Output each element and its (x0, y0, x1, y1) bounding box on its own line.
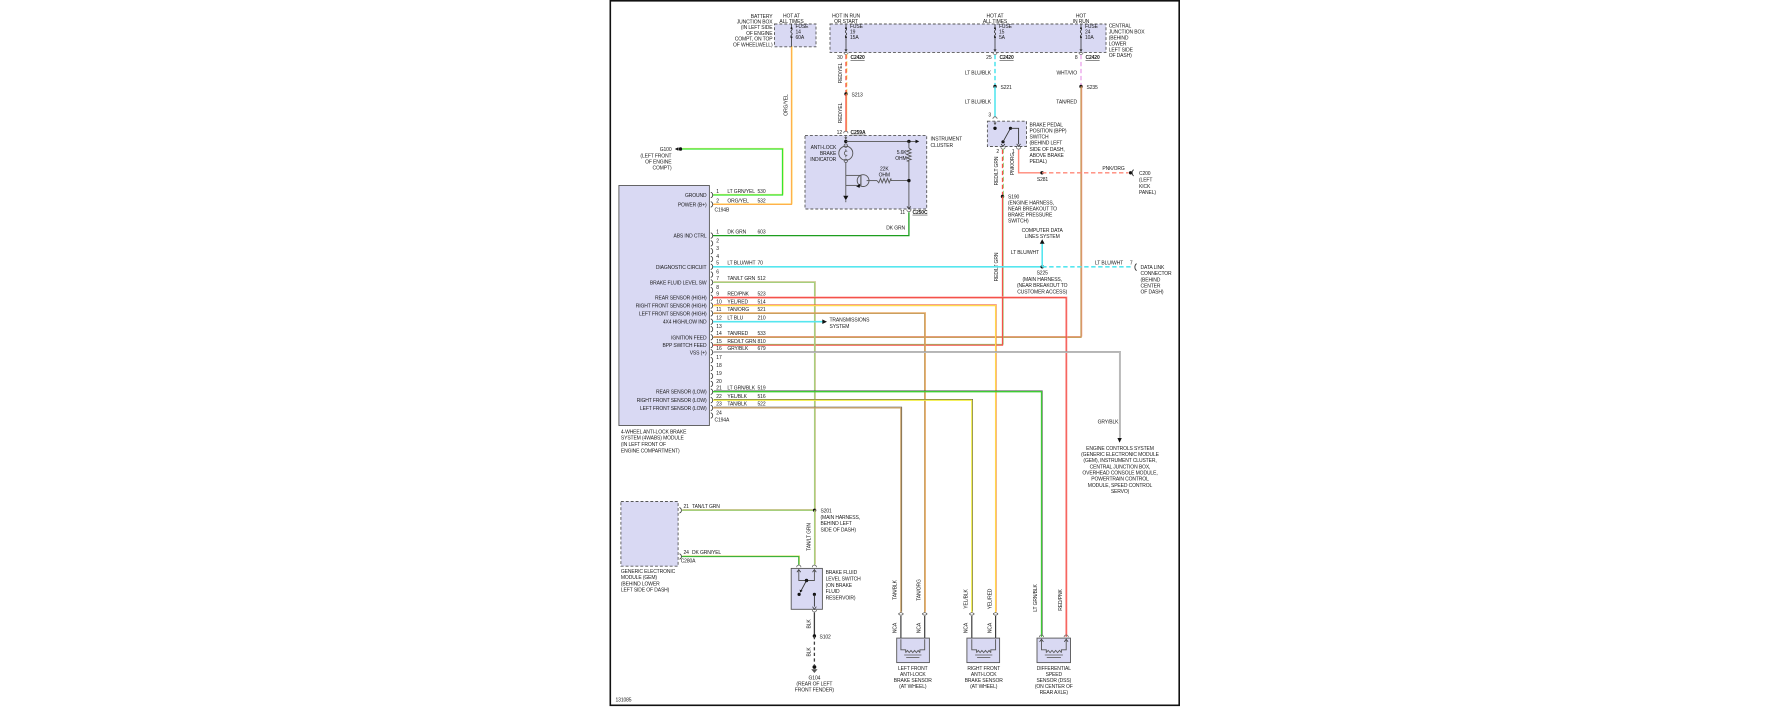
svg-text:TAN/LT GRN: TAN/LT GRN (806, 523, 812, 551)
svg-text:ENGINE CONTROLS SYSTEM: ENGINE CONTROLS SYSTEM (1086, 446, 1154, 452)
wire LT BLU/WHT dashed S225 to DLC (1042, 266, 1133, 268)
left front anti-lock brake sensor (893, 613, 933, 690)
svg-text:IGNITION FEED: IGNITION FEED (671, 335, 707, 341)
svg-text:G104: G104 (809, 676, 821, 682)
module pin 12 LT BLU (663, 316, 766, 326)
svg-text:20: 20 (716, 379, 722, 385)
wire LT GRN/BLK module pin21 to DSS (713, 391, 1042, 637)
svg-text:TAN/RED: TAN/RED (1056, 99, 1077, 105)
splice S281 (1037, 171, 1049, 183)
svg-text:17: 17 (716, 355, 722, 361)
svg-text:(GENERIC ELECTRONIC MODULE: (GENERIC ELECTRONIC MODULE (1081, 452, 1160, 458)
4WABS module box (619, 186, 710, 426)
svg-text:C200: C200 (1139, 171, 1151, 177)
svg-text:TAN/LT GRN: TAN/LT GRN (692, 504, 720, 510)
feed label HOT AT ALL TIMES (battery box) (779, 13, 804, 25)
svg-text:WHT/VIO: WHT/VIO (1056, 70, 1077, 76)
BPP entry connector (993, 117, 997, 119)
BPP switch arm (1001, 127, 1018, 144)
svg-text:LT BLU: LT BLU (727, 316, 743, 322)
wire DK GRN cluster to module pin1 (713, 212, 909, 235)
svg-text:SWITCH): SWITCH) (1008, 219, 1029, 225)
svg-text:SERVO): SERVO) (1111, 489, 1130, 495)
module pin GROUND (685, 189, 766, 199)
svg-text:FRONT FENDER): FRONT FENDER) (795, 688, 835, 694)
wire RED/LT GRN S190 to module pin15 (713, 196, 1003, 346)
module pin 11 TAN/ORG (639, 307, 766, 317)
svg-text:RIGHT FRONT SENSOR (LOW): RIGHT FRONT SENSOR (LOW) (637, 398, 707, 404)
svg-text:(LEFT: (LEFT (1139, 178, 1152, 184)
fuse 14 label (796, 24, 810, 41)
svg-text:CENTER: CENTER (1141, 284, 1161, 290)
module pin 2 (unused) (711, 238, 720, 246)
svg-text:LEFT FRONT SENSOR (LOW): LEFT FRONT SENSOR (LOW) (640, 406, 707, 412)
BPP common node (993, 127, 996, 130)
wire RED/LT GRN dashed BPP pin2 to S190 (1002, 149, 1005, 197)
svg-text:S225: S225 (1037, 271, 1049, 277)
svg-text:1: 1 (716, 229, 719, 235)
svg-text:21: 21 (684, 504, 690, 510)
svg-text:2: 2 (716, 238, 719, 244)
module pin 23 TAN/BLK (640, 402, 766, 412)
transmissions system label (830, 317, 871, 329)
splice S213 (844, 92, 863, 98)
diagram border frame (610, 1, 1179, 706)
module pin 1 DK GRN (673, 229, 765, 239)
instrument cluster box (805, 135, 927, 209)
wire LT BLU module pin12 to transmissions system (713, 319, 827, 324)
svg-text:30: 30 (837, 55, 843, 61)
4WABS module label (621, 429, 687, 454)
feed label HOT AT ALL TIMES (CJB) (983, 13, 1008, 25)
svg-text:TAN/ORG: TAN/ORG (916, 579, 922, 601)
module pin 16 GRY/BLK (690, 346, 766, 356)
feed label HOT IN RUN OR START (832, 13, 860, 25)
svg-text:BRAKE FLUID LEVEL SW: BRAKE FLUID LEVEL SW (650, 280, 707, 286)
splice S235 (1079, 85, 1098, 91)
svg-text:C259A: C259A (851, 130, 866, 136)
switch arm (798, 581, 807, 597)
cluster entry arrow (844, 135, 847, 140)
svg-text:4: 4 (716, 254, 719, 260)
BPP pin2 contact (1001, 144, 1005, 147)
svg-text:530: 530 (758, 189, 766, 195)
svg-text:NCA: NCA (893, 622, 899, 633)
svg-text:15: 15 (716, 339, 722, 345)
cluster node C (907, 179, 910, 182)
svg-text:2: 2 (716, 198, 719, 204)
anti-lock brake indicator label (810, 145, 837, 163)
svg-text:TAN/RED: TAN/RED (727, 331, 748, 337)
svg-text:RESERVOIR): RESERVOIR) (826, 596, 856, 602)
svg-text:G100: G100 (660, 147, 672, 153)
svg-text:BEHIND LEFT: BEHIND LEFT (821, 521, 852, 527)
wire ORG/YEL fuse14 to module pin2 (713, 46, 792, 205)
GEM pin 24 (680, 550, 722, 559)
svg-text:FLUID: FLUID (826, 589, 840, 595)
brake fluid level switch box (791, 568, 822, 609)
module pin 9 RED/PNK (655, 292, 766, 302)
svg-text:DK GRN: DK GRN (727, 229, 746, 235)
switch common node (805, 579, 808, 582)
switch bottom connector (812, 610, 816, 612)
connector 8 C2420 (1075, 52, 1100, 61)
module pin 5 LT BLU/WHT (656, 261, 763, 271)
svg-text:LEVEL SWITCH: LEVEL SWITCH (826, 577, 862, 583)
svg-text:BLK: BLK (806, 619, 812, 629)
svg-text:25: 25 (986, 55, 992, 61)
svg-text:(AT WHEEL): (AT WHEEL) (899, 684, 927, 690)
svg-text:REAR SENSOR (HIGH): REAR SENSOR (HIGH) (655, 296, 707, 302)
wire YEL/BLK module pin22 to RF sensor (713, 399, 973, 612)
brake fluid switch entry connectors (797, 565, 817, 567)
connector 25 C2420 (986, 52, 1014, 61)
fuse 24 10A symbol (1080, 24, 1083, 52)
svg-text:POWER (B+): POWER (B+) (678, 202, 707, 208)
module pin 21 LT GRN/BLK (656, 386, 766, 396)
connector 12 C259A (837, 130, 866, 136)
svg-text:1: 1 (716, 189, 719, 195)
svg-text:3: 3 (716, 246, 719, 252)
wire WHT/VIO dashed fuse24 to S235 (1080, 55, 1082, 87)
splice S221 (993, 85, 1012, 91)
connector 11 C250C (900, 210, 928, 216)
module pin 3 (unused) (711, 246, 720, 254)
svg-text:INSTRUMENT: INSTRUMENT (931, 137, 963, 143)
GEM label (621, 569, 676, 593)
svg-text:RED/PNK: RED/PNK (1058, 589, 1064, 611)
svg-text:(NEAR BREAKOUT TO: (NEAR BREAKOUT TO (1017, 283, 1068, 289)
svg-text:RIGHT FRONT SENSOR (HIGH): RIGHT FRONT SENSOR (HIGH) (636, 304, 707, 310)
svg-text:COMPT): COMPT) (653, 165, 672, 171)
central junction box (830, 24, 1106, 52)
svg-text:C2420: C2420 (1086, 55, 1100, 61)
svg-text:12: 12 (837, 130, 843, 136)
resistor 22K OHM (867, 178, 909, 182)
label 22K OHM (879, 167, 890, 179)
svg-text:S235: S235 (1087, 85, 1099, 91)
data link connector label (1141, 265, 1173, 296)
module pin 4 (unused) (711, 254, 720, 262)
svg-text:RED/LT GRN: RED/LT GRN (727, 339, 756, 345)
svg-text:BPP SWITCH FEED: BPP SWITCH FEED (663, 343, 707, 349)
svg-text:NCA: NCA (916, 622, 922, 633)
svg-text:PNK/ORG: PNK/ORG (1102, 166, 1124, 172)
svg-text:24: 24 (716, 411, 722, 417)
wire LT BLU/BLK dashed fuse15 to S221 (994, 55, 996, 87)
svg-text:SYSTEM: SYSTEM (830, 324, 850, 330)
svg-text:532: 532 (758, 198, 766, 204)
svg-text:(MAIN HARNESS,: (MAIN HARNESS, (821, 515, 860, 521)
svg-text:LT BLU/WHT: LT BLU/WHT (727, 261, 755, 267)
ground G100 (640, 147, 682, 171)
svg-text:RED/YEL: RED/YEL (838, 62, 844, 83)
transistor Q1 (856, 175, 869, 188)
computer data lines system label (1022, 228, 1064, 240)
svg-text:S102: S102 (820, 634, 832, 640)
wire TAN/BLK module pin23 to LF sensor (713, 407, 902, 613)
module pin POWER (B+) (678, 198, 766, 208)
svg-text:13: 13 (716, 324, 722, 330)
svg-text:(AT WHEEL): (AT WHEEL) (970, 684, 998, 690)
fuse 19 label (850, 24, 864, 41)
svg-text:LT GRN/BLK: LT GRN/BLK (1033, 583, 1039, 611)
cluster node A (top junction) (844, 140, 847, 143)
resistor 5.6K OHM (907, 141, 911, 208)
generic electronic module box (621, 502, 678, 567)
BPP pin2 connector (996, 147, 1005, 155)
svg-text:PANEL): PANEL) (1139, 190, 1156, 196)
svg-text:LEFT FRONT SENSOR (HIGH): LEFT FRONT SENSOR (HIGH) (639, 311, 707, 317)
svg-text:C194B: C194B (715, 208, 730, 214)
svg-text:TRANSMISSIONS: TRANSMISSIONS (830, 317, 871, 323)
instrument cluster label (931, 137, 963, 149)
connector C200 (1129, 170, 1157, 197)
svg-text:LT BLU/WHT: LT BLU/WHT (1095, 260, 1123, 266)
svg-text:19: 19 (716, 371, 722, 377)
wire TAN/ORG module pin11 to LF sensor (713, 313, 926, 613)
BPP pin1 connector (1012, 147, 1021, 155)
module pin 8 (unused) (711, 285, 720, 293)
svg-text:C2420: C2420 (851, 55, 865, 61)
wire GRY/BLK module pin16 to engine controls (713, 351, 1122, 442)
svg-text:LT BLU/BLK: LT BLU/BLK (965, 70, 992, 76)
svg-text:4X4 HIGH/LOW IND: 4X4 HIGH/LOW IND (663, 320, 707, 326)
svg-text:8: 8 (716, 285, 719, 291)
ABS indicator lamp (839, 144, 853, 163)
wire TAN/LT GRN S201 to brake fluid switch (814, 509, 817, 565)
svg-text:POSITION (BPP): POSITION (BPP) (1030, 129, 1067, 135)
wire lamp to transistor and ground (846, 163, 861, 196)
svg-text:(REAR OF LEFT: (REAR OF LEFT (796, 682, 832, 688)
svg-text:S213: S213 (852, 92, 864, 98)
fuse 19 15A symbol (845, 24, 848, 52)
wire LT BLU/WHT module pin5 to S225 (713, 266, 1042, 268)
svg-text:DATA LINK: DATA LINK (1141, 265, 1166, 271)
svg-text:GROUND: GROUND (685, 193, 707, 199)
svg-text:131085: 131085 (616, 698, 632, 704)
wire BLK switch to S102 (813, 612, 815, 636)
label 5.6K OHM (895, 150, 907, 162)
svg-text:OF WHEELWELL): OF WHEELWELL) (733, 42, 773, 48)
svg-text:SYSTEM (4WABS) MODULE: SYSTEM (4WABS) MODULE (621, 436, 685, 442)
svg-text:TAN/BLK: TAN/BLK (893, 579, 899, 599)
wire LT BLU/BLK S221 to BPP pin3 (994, 87, 996, 117)
svg-text:5A: 5A (999, 35, 1006, 41)
svg-text:ORG/YEL: ORG/YEL (727, 198, 749, 204)
BPP pin1 contact (1017, 144, 1021, 147)
wire LT BLU/WHT S225 up to computer data lines (1040, 239, 1045, 266)
module pin 20 (unused) (711, 379, 722, 387)
svg-text:ABOVE BRAKE: ABOVE BRAKE (1030, 153, 1065, 159)
svg-text:ORG/YEL: ORG/YEL (784, 94, 790, 116)
module pin 19 (unused) (711, 371, 722, 379)
battery junction box label (0, 0, 1, 1)
wire RED/YEL S213 to C259A (845, 93, 848, 132)
svg-text:CONNECTOR: CONNECTOR (1141, 271, 1173, 277)
svg-text:4-WHEEL ANTI-LOCK BRAKE: 4-WHEEL ANTI-LOCK BRAKE (621, 429, 687, 435)
svg-text:22K: 22K (880, 167, 889, 173)
cluster bottom contact (907, 206, 911, 209)
module pin 7 TAN/LT GRN (650, 276, 766, 286)
svg-text:PNK/ORG: PNK/ORG (1010, 153, 1016, 175)
svg-text:SWITCH: SWITCH (1030, 135, 1050, 141)
wire YEL/RED module pin10 to RF sensor (713, 305, 997, 613)
svg-text:GENERIC ELECTRONIC: GENERIC ELECTRONIC (621, 569, 676, 575)
wire PNK/ORG BPP pin1 to S281 (1019, 150, 1042, 173)
wire RED/PNK module pin9 to DSS (713, 297, 1067, 637)
svg-text:DIAGNOSTIC CIRCUIT: DIAGNOSTIC CIRCUIT (656, 265, 707, 271)
svg-text:SIDE OF DASH): SIDE OF DASH) (821, 528, 857, 534)
svg-text:ABS IND CTRL: ABS IND CTRL (673, 234, 706, 240)
svg-text:LEFT SIDE OF DASH): LEFT SIDE OF DASH) (621, 587, 670, 593)
svg-text:60A: 60A (796, 35, 805, 41)
svg-text:SIDE OF DASH,: SIDE OF DASH, (1030, 147, 1065, 153)
battery junction box (775, 24, 817, 47)
svg-text:YEL/BLK: YEL/BLK (964, 588, 970, 608)
svg-text:YEL/RED: YEL/RED (987, 588, 993, 609)
svg-text:LT BLU/WHT: LT BLU/WHT (1011, 250, 1039, 256)
fuse 24 label (1085, 24, 1099, 41)
svg-text:C280A: C280A (681, 559, 696, 565)
svg-text:PEDAL): PEDAL) (1030, 159, 1048, 165)
svg-text:3: 3 (988, 113, 991, 119)
svg-text:C2420: C2420 (1000, 55, 1014, 61)
wire DK GRN/YEL GEM pin24 to brake fluid switch (682, 556, 800, 566)
connector 30 C2420 (837, 52, 865, 61)
switch lower contact (813, 593, 817, 609)
svg-text:S281: S281 (1037, 177, 1049, 183)
fuse 15 5A symbol (994, 24, 997, 52)
module pin 6 (unused) (711, 270, 720, 278)
GEM pin 21 (680, 504, 721, 513)
svg-text:533: 533 (758, 331, 766, 337)
svg-text:BRAKE PEDAL: BRAKE PEDAL (1030, 122, 1064, 128)
svg-text:KICK: KICK (1139, 184, 1151, 190)
svg-text:LT BLU/BLK: LT BLU/BLK (965, 99, 992, 105)
svg-text:NCA: NCA (987, 622, 993, 633)
svg-text:OHM: OHM (895, 156, 906, 162)
splice S201 (813, 509, 860, 534)
svg-text:10A: 10A (1085, 35, 1094, 41)
svg-text:OHM: OHM (879, 173, 890, 179)
svg-text:ENGINE COMPARTMENT): ENGINE COMPARTMENT) (621, 449, 680, 455)
svg-text:11: 11 (900, 210, 905, 216)
wire TAN/LT GRN module pin7 to S201 (713, 282, 816, 511)
svg-text:VSS (+): VSS (+) (690, 350, 707, 356)
svg-text:DK GRN/YEL: DK GRN/YEL (692, 550, 721, 556)
wire PNK/ORG dashed S281 to C200 (1042, 172, 1129, 174)
svg-text:18: 18 (716, 363, 722, 369)
svg-text:24: 24 (684, 550, 690, 556)
differential speed sensor (1035, 635, 1073, 696)
svg-text:S221: S221 (1001, 85, 1013, 91)
svg-text:7: 7 (1130, 260, 1133, 266)
svg-text:(GEM), INSTRUMENT CLUSTER,: (GEM), INSTRUMENT CLUSTER, (1083, 458, 1156, 464)
svg-text:8: 8 (1075, 55, 1078, 61)
cluster node B (907, 140, 910, 143)
svg-text:LT GRN/YEL: LT GRN/YEL (727, 189, 755, 195)
splice S190 (1001, 195, 1057, 225)
svg-text:6: 6 (716, 270, 719, 276)
svg-text:(BEHIND LEFT: (BEHIND LEFT (1030, 141, 1063, 147)
svg-text:CLUSTER: CLUSTER (931, 143, 954, 149)
fuse 15 label (999, 24, 1013, 41)
svg-text:810: 810 (758, 339, 766, 345)
cluster ground symbol (843, 196, 848, 202)
svg-text:(IN LEFT FRONT OF: (IN LEFT FRONT OF (621, 442, 666, 448)
module pin 17 (unused) (711, 355, 722, 363)
svg-text:14: 14 (716, 331, 722, 337)
central junction box label (1109, 24, 1146, 60)
wire BLK dashed S102 to G104 (813, 636, 815, 665)
svg-text:C194A: C194A (715, 418, 730, 424)
svg-text:(BEHIND: (BEHIND (1141, 277, 1161, 283)
module pin 10 YEL/RED (636, 299, 766, 309)
svg-text:OF DASH): OF DASH) (1109, 53, 1132, 59)
svg-text:OF DASH): OF DASH) (1141, 290, 1164, 296)
svg-text:210: 210 (758, 316, 766, 322)
wire RED/YEL dashed fuse19 to S213 (845, 54, 848, 94)
brake pedal position switch box (987, 121, 1026, 146)
svg-text:REAR SENSOR (LOW): REAR SENSOR (LOW) (656, 390, 707, 396)
svg-text:RED/YEL: RED/YEL (838, 102, 844, 123)
splice S102 (813, 634, 831, 640)
module pin 14 TAN/RED (671, 331, 766, 341)
splice S225 (1017, 265, 1068, 295)
svg-text:(MAIN HARNESS,: (MAIN HARNESS, (1022, 277, 1061, 283)
svg-text:POWERTRAIN CONTROL: POWERTRAIN CONTROL (1091, 477, 1149, 483)
svg-text:LINES SYSTEM: LINES SYSTEM (1025, 234, 1060, 240)
wire TAN/LT GRN GEM pin21 to S201 (682, 508, 816, 511)
module pin 13 (unused) (711, 324, 722, 332)
svg-text:BRAKE FLUID: BRAKE FLUID (826, 570, 858, 576)
wire LT GRN/YEL G100 to module pin1 top (682, 148, 783, 195)
svg-text:INDICATOR: INDICATOR (810, 157, 836, 163)
svg-text:CUSTOMER ACCESS): CUSTOMER ACCESS) (1017, 289, 1067, 295)
svg-text:RED/LT GRN: RED/LT GRN (994, 156, 1000, 185)
svg-text:NCA: NCA (964, 622, 970, 633)
switch entry arrows (797, 570, 816, 581)
BPP switch label (1030, 122, 1067, 165)
svg-text:GRY/BLK: GRY/BLK (1098, 419, 1120, 425)
cluster top wire to arrow (846, 140, 920, 144)
brake fluid level switch label (826, 570, 862, 601)
DLC connector arc (1135, 264, 1137, 271)
svg-text:S201: S201 (821, 509, 833, 515)
fuse 14 60A symbol (791, 24, 793, 47)
wire TAN/RED S235 to module pin14 (713, 86, 1082, 338)
BPP entry arrow (994, 121, 997, 125)
svg-text:5: 5 (716, 261, 719, 267)
svg-text:DK GRN: DK GRN (886, 225, 905, 231)
svg-text:2: 2 (996, 149, 999, 155)
svg-text:CENTRAL JUNCTION BOX,: CENTRAL JUNCTION BOX, (1090, 464, 1151, 470)
svg-text:15A: 15A (850, 35, 859, 41)
right front anti-lock brake sensor (964, 613, 1004, 690)
svg-text:70: 70 (758, 261, 764, 267)
svg-text:MODULE (GEM): MODULE (GEM) (621, 575, 658, 581)
engine controls system label (1081, 446, 1160, 495)
svg-text:603: 603 (758, 229, 766, 235)
svg-text:C250C: C250C (913, 210, 928, 216)
svg-text:(BEHIND LOWER: (BEHIND LOWER (621, 581, 660, 587)
svg-text:12: 12 (716, 316, 722, 322)
svg-text:OVERHEAD CONSOLE MODULE,: OVERHEAD CONSOLE MODULE, (1082, 471, 1157, 477)
svg-text:MODULE, SPEED CONTROL: MODULE, SPEED CONTROL (1088, 483, 1153, 489)
feed label HOT IN RUN (1073, 13, 1090, 25)
svg-text:BLK: BLK (806, 647, 812, 657)
